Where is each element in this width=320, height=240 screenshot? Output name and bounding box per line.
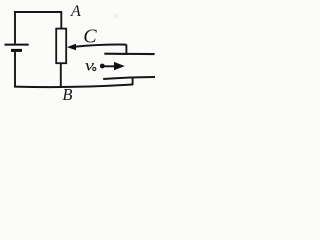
svg-text:C: C — [83, 26, 97, 48]
vo label — [85, 57, 95, 75]
wire top (node A rail) — [14, 11, 62, 13]
wire bottom output line — [103, 77, 155, 79]
wire pot bottom lead — [60, 63, 62, 86]
wire step up at bottom connector — [132, 77, 134, 85]
svg-text:B: B — [62, 85, 72, 104]
background — [0, 0, 161, 107]
wire bottom (node B rail) — [14, 85, 133, 88]
wire step down at top connector — [125, 45, 127, 55]
wire wiper (node C) — [75, 45, 127, 47]
svg-text:v: v — [85, 57, 95, 75]
vo sense arrow — [104, 65, 115, 67]
battery E long plate — [5, 44, 29, 46]
wire left lower — [14, 52, 16, 87]
vo sense bullet — [100, 64, 105, 69]
svg-text:A: A — [70, 3, 81, 20]
wire pot top lead — [60, 12, 62, 30]
wire left upper — [14, 11, 16, 43]
faint scan smudge — [114, 14, 119, 19]
wiper arrow into pot — [67, 44, 76, 50]
wire top output line — [104, 53, 154, 55]
battery E short thick plate — [11, 49, 22, 52]
potentiometer R body — [56, 29, 66, 64]
